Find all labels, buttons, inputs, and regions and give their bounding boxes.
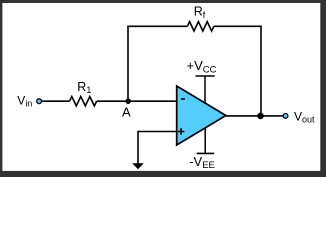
ground (arrow) (137, 131, 139, 164)
wire: op-amp to VEE (204, 128, 206, 153)
wire: top feedback right segment (214, 25, 261, 27)
node A junction dot (125, 98, 131, 104)
frame border (0, 0, 326, 177)
output junction dot (257, 113, 264, 120)
wire: R1 to op-amp inverting input (97, 100, 177, 102)
resistor R1 (69, 97, 96, 106)
op-amp minus sign (181, 98, 185, 100)
wire: VCC to op-amp (204, 76, 206, 104)
wire: top feedback left segment (128, 25, 187, 27)
wire: Vin to R1 (42, 100, 70, 102)
svg-text:A: A (122, 105, 131, 120)
terminal Vout (283, 114, 288, 119)
op-amp plus sign (178, 128, 185, 135)
op-amp U1 (177, 86, 226, 145)
wire: feedback left vertical (127, 26, 129, 102)
wire: non-inverting input (138, 131, 177, 133)
VCC rail bar (196, 75, 215, 77)
wire: output (226, 115, 283, 117)
VEE rail bar (197, 152, 215, 154)
terminal Vin (37, 99, 42, 104)
resistor Rf (187, 22, 213, 31)
wire: feedback right vertical (260, 26, 262, 116)
